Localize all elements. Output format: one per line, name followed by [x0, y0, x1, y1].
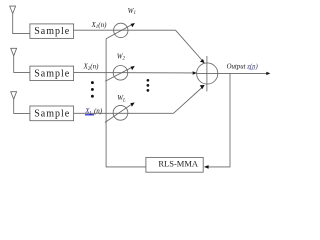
arrowhead branch3 into summer [200, 85, 205, 89]
arrowhead branch1 into summer [200, 59, 205, 63]
feedback wire from output down to RLS-MMA [208, 73, 230, 166]
RLS-MMA box [146, 157, 203, 172]
antenna 1 [10, 6, 30, 33]
svg-text:RLS-MMA: RLS-MMA [158, 159, 199, 169]
arrowhead output [266, 72, 270, 75]
weight control arrow W2 line [105, 67, 132, 81]
svg-text:WL: WL [117, 94, 126, 103]
svg-text:X2(n): X2(n) [83, 63, 100, 72]
svg-text:W1: W1 [128, 7, 136, 16]
ellipsis dots left [91, 81, 94, 84]
control bus vertical from RLS-MMA [106, 39, 146, 167]
svg-text:W2: W2 [117, 53, 126, 62]
multiplier circle M1 [114, 23, 128, 37]
svg-text:Sample: Sample [34, 108, 70, 119]
wire box2 to multiplier M2 [74, 72, 194, 74]
weight control arrow W1 line [106, 25, 132, 39]
summer cross vertical line [206, 56, 208, 91]
antenna 3 [11, 92, 30, 114]
svg-text:Sample: Sample [34, 68, 70, 79]
sample box 1 [30, 24, 74, 39]
arrowhead weight W1 [131, 23, 135, 27]
arrowhead feedback into RLS-MMA [204, 165, 209, 169]
summer circle [197, 63, 218, 84]
multiplier circle M3 [113, 105, 128, 120]
multiplier circle M2 [113, 66, 128, 81]
wire box3 to multiplier M3 [74, 112, 174, 114]
summer cross horizontal / output line [197, 72, 267, 74]
arrowhead branch2 into summer [193, 71, 197, 75]
wire branch1 diagonal into summer [176, 30, 203, 60]
arrowhead weight W2 [131, 66, 135, 70]
label z(n) underline [249, 68, 255, 71]
wire box1 to multiplier M1 [74, 29, 176, 31]
sample box 2 [30, 66, 74, 81]
wire branch3 diagonal into summer [174, 88, 203, 114]
ellipsis dots right [147, 79, 150, 82]
svg-text:X1(n): X1(n) [91, 21, 108, 30]
arrowhead weight WL [130, 103, 134, 107]
svg-text:Sample: Sample [34, 26, 70, 37]
antenna 2 [11, 48, 30, 72]
weight control arrow WL line [105, 104, 132, 122]
label XL underline [85, 114, 94, 115]
sample box 3 [30, 106, 74, 121]
